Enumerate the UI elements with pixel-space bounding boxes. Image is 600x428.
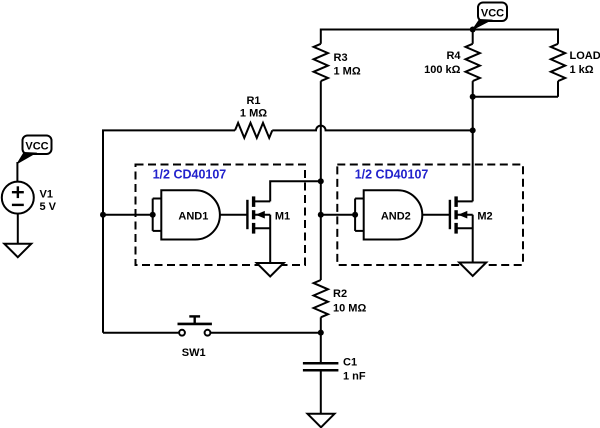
junction top rail / VCC / R4: [470, 27, 476, 33]
junction node A: [100, 212, 106, 218]
resistor LOAD, 1 kOhm: [551, 29, 600, 97]
svg-text:1 kΩ: 1 kΩ: [570, 64, 594, 76]
switch SW1 (pushbutton): [178, 316, 212, 359]
wire R4/LOAD bottom: [473, 96, 558, 98]
svg-text:C1: C1: [343, 357, 357, 369]
svg-text:1 MΩ: 1 MΩ: [240, 107, 267, 119]
wire AND1 output to M1 gate: [220, 214, 248, 216]
svg-text:1 MΩ: 1 MΩ: [334, 66, 361, 78]
IC U1: 1/2 CD40107 dashed box: [136, 165, 306, 266]
wire node A bottom to SW1: [103, 332, 178, 334]
junction node C: [318, 212, 324, 218]
svg-text:1 nF: 1 nF: [343, 370, 366, 382]
wire VCC flag to V1 +: [16, 162, 18, 182]
wire top VCC rail: [321, 29, 558, 31]
ground (below M1): [257, 263, 284, 277]
resistor R4, 100 kOhm: [424, 29, 480, 97]
AND gate AND1: [153, 190, 220, 239]
svg-text:5 V: 5 V: [40, 201, 57, 213]
wire V1 - to ground: [17, 214, 19, 244]
wire AND2 output to M2 gate: [422, 214, 450, 216]
IC U2: 1/2 CD40107 dashed box: [337, 165, 523, 266]
wire C1 bottom to ground: [320, 370, 322, 414]
ground (below M2): [459, 263, 486, 277]
voltage source V1, 5 V: [2, 182, 57, 214]
wire node B vertical to M2 drain: [472, 97, 474, 202]
resistor R2, 10 MOhm: [314, 280, 367, 317]
wire M1 drain up to node C: [270, 181, 321, 201]
AND gate AND2: [355, 190, 422, 239]
wire node C branch to AND2 input: [321, 214, 355, 216]
transistor M2 (NMOS): [450, 196, 493, 233]
resistor R1, 1 MOhm: [235, 95, 272, 138]
svg-text:1/2 CD40107: 1/2 CD40107: [153, 168, 227, 182]
svg-text:AND1: AND1: [178, 210, 208, 222]
svg-text:V1: V1: [40, 189, 53, 201]
svg-text:M2: M2: [477, 210, 492, 222]
svg-text:R2: R2: [333, 288, 347, 300]
wire R1 right to node B with hop over node C line: [272, 126, 472, 131]
svg-text:R3: R3: [334, 52, 348, 64]
svg-text:100 kΩ: 100 kΩ: [424, 64, 461, 76]
junction R4 bottom / node B: [470, 94, 476, 100]
resistor R3, 1 MOhm: [314, 29, 361, 82]
svg-text:SW1: SW1: [182, 347, 206, 359]
junction AND1 input bracket: [150, 212, 156, 218]
junction AND2 input bracket: [352, 212, 358, 218]
ground (below C1): [308, 414, 335, 428]
svg-text:10 MΩ: 10 MΩ: [333, 303, 366, 315]
capacitor C1, 1 nF: [303, 357, 366, 383]
transistor M1 (NMOS): [247, 196, 290, 233]
junction node B / R1: [470, 127, 476, 133]
wire R2 bottom to node D: [320, 317, 322, 363]
svg-text:R4: R4: [446, 50, 461, 62]
svg-text:1/2 CD40107: 1/2 CD40107: [355, 168, 429, 182]
svg-text:AND2: AND2: [381, 210, 411, 222]
svg-text:M1: M1: [275, 210, 290, 222]
wire node A branch to AND1 input: [103, 214, 153, 216]
wire left rail vertical (node A): [102, 130, 104, 332]
power flag VCC (left, node VCC): [17, 136, 51, 164]
wire M1 source down: [269, 215, 271, 263]
ground (below V1): [4, 244, 31, 258]
wire SW1 to node D: [211, 332, 321, 334]
power flag VCC (top, node VCC): [473, 3, 507, 30]
junction node D: [318, 330, 324, 336]
junction node C / M1 drain: [318, 178, 324, 184]
svg-text:VCC: VCC: [481, 8, 504, 20]
wire M2 source down: [472, 215, 474, 263]
svg-text:R1: R1: [246, 95, 260, 107]
wire node C vertical (R3 bottom to R2 top): [320, 81, 322, 280]
svg-text:VCC: VCC: [25, 141, 48, 153]
svg-text:LOAD: LOAD: [570, 50, 600, 62]
wire node A to R1 left: [102, 129, 235, 131]
